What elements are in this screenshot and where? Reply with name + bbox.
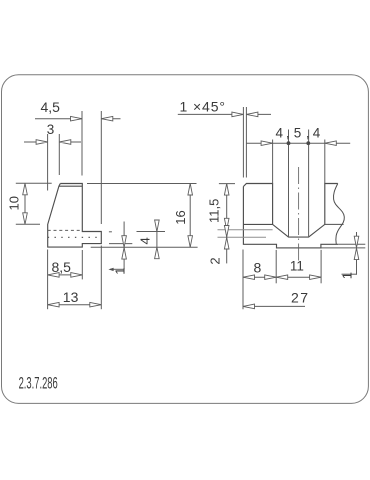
svg-text:,: , — [286, 126, 290, 141]
svg-text:10: 10 — [7, 196, 22, 210]
svg-text:27: 27 — [291, 290, 310, 306]
svg-text:4: 4 — [313, 126, 321, 141]
svg-text:1: 1 — [340, 272, 355, 279]
dimension 4 — [109, 221, 165, 259]
svg-text:8: 8 — [254, 259, 262, 275]
projection line lower — [218, 236, 267, 238]
svg-text:1: 1 — [112, 267, 127, 274]
svg-text:3: 3 — [47, 122, 55, 137]
svg-text:13: 13 — [63, 289, 79, 305]
border frame — [2, 75, 369, 404]
svg-text:11,5: 11,5 — [206, 199, 221, 223]
right wall interior line — [325, 223, 344, 225]
dimension 1 right — [342, 232, 357, 275]
svg-text:2.3.7.286: 2.3.7.286 — [19, 374, 58, 392]
svg-text:5: 5 — [294, 126, 302, 141]
dimension 11,5 — [219, 184, 235, 264]
dimension 2 — [224, 226, 229, 250]
left profile hidden dashed edge — [48, 229, 83, 231]
svg-text:1 ×45°: 1 ×45° — [180, 98, 226, 114]
right profile break line — [333, 184, 344, 245]
dimension 13 — [48, 246, 102, 310]
left profile outline — [48, 184, 102, 248]
ground reference line left — [91, 246, 198, 248]
slot centerline — [298, 167, 300, 262]
dimension 1x45 chamfer note — [178, 107, 271, 178]
dimension 4,5,4 top — [246, 140, 350, 184]
top reference line 16 — [87, 183, 197, 185]
svg-text:2: 2 — [207, 257, 222, 264]
dimension 27 — [243, 305, 305, 307]
svg-text:8,5: 8,5 — [52, 259, 72, 275]
svg-text:16: 16 — [173, 210, 188, 224]
dimension 8,5 — [48, 250, 83, 310]
dimension 4,5 left — [35, 111, 121, 224]
ground reference line right low — [277, 247, 366, 249]
dimension 16 — [189, 184, 191, 248]
svg-text:4: 4 — [138, 237, 153, 244]
svg-text:,: , — [306, 126, 310, 141]
dimension 10 — [16, 183, 52, 224]
svg-text:4,5: 4,5 — [41, 99, 61, 115]
dimension 8 and 11 — [243, 250, 321, 310]
svg-text:11: 11 — [290, 259, 304, 274]
right profile outline — [243, 184, 338, 248]
slot wall lines — [288, 130, 290, 238]
dimension 3 — [24, 134, 81, 191]
svg-text:4: 4 — [276, 126, 284, 141]
dimension 1 left — [108, 222, 132, 272]
ground reference line right up — [338, 243, 365, 245]
left profile hidden dotted edge — [48, 236, 101, 238]
projection line upper — [218, 229, 273, 231]
